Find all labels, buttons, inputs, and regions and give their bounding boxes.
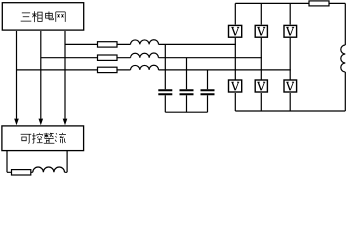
inductor L1 (phase A) (131, 40, 159, 45)
valve V6 (lower leg2) (255, 80, 267, 92)
label 可控整流 (21, 133, 66, 144)
wire DC right drop (lower) (344, 72, 346, 111)
三 (21, 13, 32, 21)
wire phase C drop from grid box (64, 31, 66, 119)
resistor R3 (phase C) (98, 67, 118, 72)
可 (21, 134, 32, 143)
valve V4 (lower leg1) (229, 80, 242, 92)
wire capacitor bottom bus (165, 111, 207, 113)
label 三相电网 (21, 11, 66, 22)
inductor L4 (DC smoothing) (341, 45, 346, 72)
wire bridge leg 2 (260, 3, 262, 111)
wire phase B drop from grid box (40, 31, 42, 119)
整 (44, 133, 55, 143)
相 (32, 11, 42, 22)
wire phase A drop from grid box (16, 31, 18, 119)
inductor L2 (phase B) (131, 53, 159, 58)
capacitor C1 (158, 44, 172, 112)
arrow into rectifier (phase B) (39, 119, 44, 126)
流 (55, 133, 66, 143)
网 (56, 12, 65, 22)
resistor R2 (phase B) (98, 55, 118, 60)
wire load loop left drop (7, 151, 33, 172)
wire phase C horizontal (bottom) (17, 69, 291, 71)
wire bridge leg 1 (234, 3, 236, 111)
wire phase A horizontal (top) (65, 43, 236, 45)
valve V2 (lower leg3) (284, 80, 297, 92)
电 (46, 11, 54, 19)
resistor R4 (DC rail) (309, 1, 329, 6)
resistor R5 (load) (12, 170, 31, 175)
wire DC right drop (upper) (344, 3, 346, 45)
wire DC positive top rail (235, 2, 345, 4)
inductor L3 (phase C) (131, 65, 159, 70)
resistor R1 (phase A) (98, 42, 118, 47)
wire DC negative bottom rail (235, 110, 345, 112)
arrow into rectifier (phase A) (14, 119, 19, 126)
控 (32, 133, 42, 144)
valve V5 (upper leg3) (284, 25, 297, 37)
capacitor C2 (180, 58, 194, 112)
inductor L5 (load) (33, 167, 65, 172)
valve V3 (upper leg2) (255, 25, 267, 37)
wire phase B horizontal (middle) (41, 57, 262, 59)
arrow into rectifier (phase C) (63, 119, 68, 126)
capacitor C3 (201, 70, 215, 112)
box 三相电网 (three-phase grid source) (2, 3, 83, 30)
valve V1 (upper leg1) (229, 25, 242, 37)
wire load loop right drop (65, 151, 68, 172)
wire bridge leg 3 (289, 3, 291, 111)
box 可控整流 (controlled rectifier) (2, 126, 84, 151)
